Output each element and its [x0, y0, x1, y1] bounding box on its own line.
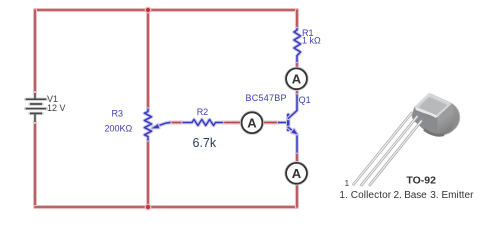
battery V1 symbol — [26, 93, 47, 122]
svg-text:BC547BP: BC547BP — [246, 93, 287, 103]
svg-text:Q1: Q1 — [299, 95, 311, 105]
svg-text:A: A — [292, 166, 302, 181]
transistor Q1 emitter arrow — [291, 129, 297, 135]
ammeter A2 (base) — [242, 112, 263, 133]
wire Q1 collector to A1 — [295, 69, 299, 96]
wire left rail upper (to battery) — [33, 10, 37, 93]
svg-text:3. Emitter: 3. Emitter — [430, 190, 474, 201]
wire top rail — [35, 8, 297, 12]
resistor R2 zigzag — [183, 120, 223, 126]
svg-text:R2: R2 — [197, 107, 209, 117]
transistor Q1 emitter lead — [288, 127, 297, 152]
package near-end dark section — [412, 108, 437, 135]
transistor Q1 base bar — [286, 115, 290, 130]
transistor Q1 base lead — [279, 121, 288, 125]
wire R3 branch from top rail — [146, 10, 150, 109]
svg-text:1: 1 — [345, 178, 350, 188]
wire top rail to R1 — [295, 10, 299, 29]
wire R1 to A1 — [295, 62, 299, 69]
potentiometer R3 wiper arrow — [152, 124, 160, 128]
wire left rail lower (from battery) — [33, 122, 37, 207]
wire bottom rail — [35, 205, 297, 209]
potentiometer R3 zigzag — [145, 109, 152, 140]
package face bottom bright rim — [416, 109, 437, 117]
node junction top rail / R3 branch — [145, 7, 152, 14]
potentiometer R3 wiper lead — [153, 123, 170, 128]
svg-text:200KΩ: 200KΩ — [105, 123, 133, 133]
svg-text:2. Base: 2. Base — [394, 190, 428, 201]
package far cap shading — [449, 103, 460, 134]
wire A3 to bottom rail — [295, 184, 299, 208]
svg-text:TO-92: TO-92 — [406, 175, 436, 187]
TO-92 package flat face — [416, 94, 455, 120]
package bottom shadow arc — [424, 130, 444, 136]
ammeter A3 (emitter) — [286, 163, 307, 184]
wire R2 to ammeter A2 — [223, 121, 243, 125]
TO-92 package legs — [354, 113, 422, 185]
transistor Q1 collector lead — [288, 95, 297, 119]
wire A2 to Q1 base — [263, 121, 279, 125]
node junction bottom rail / R3 branch — [145, 204, 152, 211]
svg-text:1. Collector: 1. Collector — [339, 190, 391, 201]
svg-text:12 V: 12 V — [47, 103, 66, 113]
package face inset panel — [419, 97, 447, 115]
package side bevel below face right edge — [438, 105, 455, 120]
svg-text:A: A — [292, 72, 302, 87]
wire R3 wiper to R2 — [169, 121, 183, 125]
svg-text:1 kΩ: 1 kΩ — [302, 36, 321, 46]
ammeter A1 (collector) — [286, 68, 307, 89]
svg-text:6.7k: 6.7k — [193, 136, 217, 150]
wire Q1 emitter to A3 — [295, 152, 299, 163]
wire R3 branch to bottom rail — [146, 140, 150, 207]
TO-92 package body back — [412, 94, 460, 136]
resistor R1 zigzag — [294, 29, 301, 62]
svg-text:A: A — [247, 115, 257, 130]
svg-text:R3: R3 — [112, 109, 124, 119]
